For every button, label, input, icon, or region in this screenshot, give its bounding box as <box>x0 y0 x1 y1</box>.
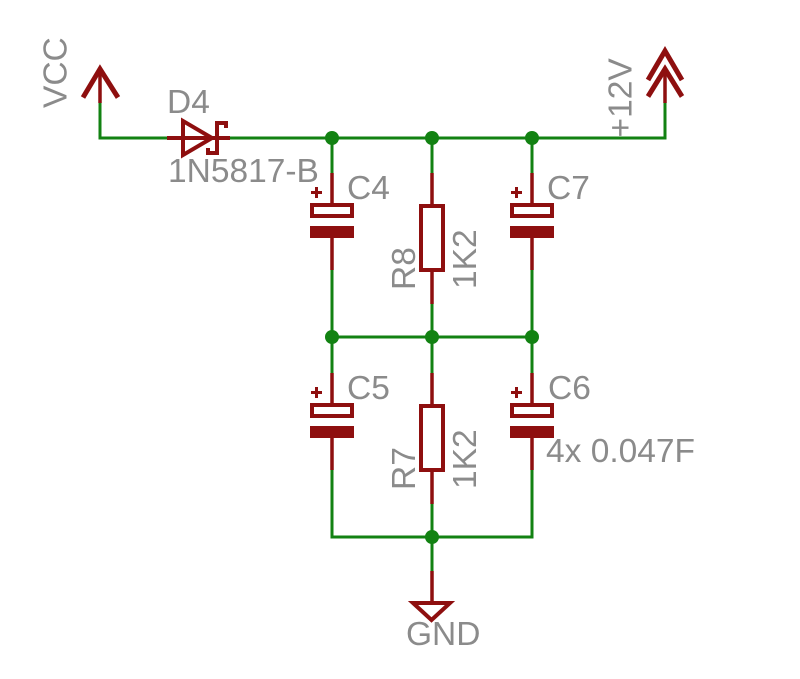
svg-text:C5: C5 <box>347 370 390 407</box>
label D4 name <box>167 84 210 121</box>
wire C7 bottom vertical <box>531 270 534 337</box>
capacitor C6 polarized <box>510 373 554 470</box>
diode D4 1N5817-B schottky <box>167 121 230 155</box>
label D4 value 1N5817-B <box>168 153 319 190</box>
svg-text:1K2: 1K2 <box>447 229 484 289</box>
label C4 name <box>347 170 390 207</box>
wire R7 bottom vertical <box>431 504 434 537</box>
junction bottom net at GND <box>425 530 439 544</box>
power symbol +12V double arrow <box>648 51 682 103</box>
svg-text:1N5817-B: 1N5817-B <box>168 153 319 190</box>
junction middle net at C7/C6 <box>525 330 539 344</box>
svg-text:VCC: VCC <box>38 37 75 108</box>
label +12V <box>603 58 640 138</box>
capacitor C4 polarized <box>310 173 354 270</box>
svg-text:4x 0.047F: 4x 0.047F <box>546 433 695 470</box>
label C6 value 4x 0.047F <box>546 433 695 470</box>
wire C5 bottom vertical <box>331 470 334 536</box>
wire C4 top vertical <box>331 138 334 173</box>
svg-text:GND: GND <box>406 616 480 653</box>
junction top net at C7 <box>525 131 539 145</box>
svg-text:R7: R7 <box>386 447 423 490</box>
wire R8 top vertical <box>431 138 434 173</box>
wire middle net horizontal <box>332 336 532 339</box>
label R7 name <box>386 447 423 490</box>
capacitor C5 polarized <box>310 373 354 470</box>
junction top net at C4 <box>325 131 339 145</box>
label VCC <box>38 37 75 108</box>
label R8 name <box>386 247 423 290</box>
wire C4 bottom vertical <box>331 270 334 337</box>
wire GND stem <box>431 537 434 571</box>
resistor R8 <box>421 173 443 304</box>
label R7 value 1K2 <box>447 429 484 489</box>
power symbol VCC arrow <box>83 69 118 103</box>
label GND <box>406 616 480 653</box>
svg-text:C4: C4 <box>347 170 390 207</box>
capacitor C7 polarized <box>510 173 554 270</box>
wire C6 bottom vertical <box>531 470 534 536</box>
svg-text:C6: C6 <box>548 370 591 407</box>
label C5 name <box>347 370 390 407</box>
ground symbol <box>413 571 450 620</box>
wire bottom net horizontal <box>332 470 532 537</box>
wire C6 top vertical <box>531 337 534 373</box>
label C6 name <box>548 370 591 407</box>
junction middle net at C4/C5 <box>325 330 339 344</box>
svg-text:1K2: 1K2 <box>447 429 484 489</box>
junction top net at R8 <box>425 131 439 145</box>
wire top net from VCC corner to +12V corner <box>100 103 665 138</box>
wire C5 top vertical <box>331 337 334 373</box>
svg-text:R8: R8 <box>386 247 423 290</box>
wire C7 top vertical <box>531 138 534 173</box>
wire R7 top vertical <box>431 337 434 373</box>
svg-text:+12V: +12V <box>603 58 640 138</box>
svg-text:D4: D4 <box>167 84 210 121</box>
label R8 value 1K2 <box>447 229 484 289</box>
svg-text:C7: C7 <box>547 170 590 207</box>
label C7 name <box>547 170 590 207</box>
junction middle net at R8/R7 <box>425 330 439 344</box>
resistor R7 <box>421 373 443 504</box>
wire R8 bottom vertical <box>431 304 434 337</box>
